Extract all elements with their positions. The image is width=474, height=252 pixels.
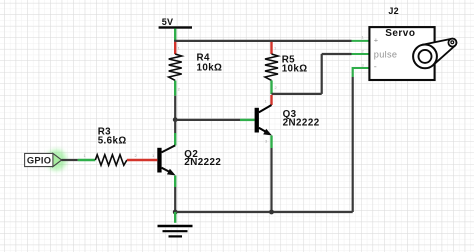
wire: 5V horizontal rail to servo + pin	[174, 40, 369, 42]
wire: R4 bottom to node A	[174, 96, 176, 120]
wire: pulse riser vertical	[321, 54, 323, 94]
transistor Q3	[255, 105, 320, 135]
svg-text:2N2222: 2N2222	[184, 157, 221, 168]
node A junction dot	[173, 117, 178, 122]
wire: to servo pulse pin	[322, 53, 370, 55]
wire: Q2 emitter lead (green)	[174, 176, 176, 188]
resistor R3	[95, 126, 127, 165]
pin number 1 of R3	[84, 153, 87, 158]
svg-text:10kΩ: 10kΩ	[197, 63, 223, 74]
wire: servo minus pin to ground rail	[353, 67, 370, 212]
resistor R4	[169, 53, 223, 81]
power symbol 5V	[159, 17, 192, 28]
pin number 1 of R5	[274, 46, 277, 51]
wire: R5 pin1 lead (red)	[270, 42, 272, 54]
connector J2 servo	[369, 6, 456, 80]
svg-text:2N2222: 2N2222	[283, 118, 320, 129]
wire: GPIO to R3	[62, 159, 96, 161]
wire: R5 pin2 lead (green)	[270, 80, 272, 94]
transistor Q2	[157, 145, 221, 175]
pin number 2 of R4	[178, 87, 181, 92]
junction dot Q3 emitter / ground rail	[269, 210, 274, 215]
pin number 1 of Q2 base	[152, 153, 155, 158]
svg-text:+: +	[374, 35, 379, 44]
wire: Q2 emitter to ground node	[174, 187, 176, 212]
svg-text:J2: J2	[388, 6, 398, 16]
svg-text:5V: 5V	[162, 17, 173, 27]
ground node junction dot	[173, 210, 178, 215]
pin number 2 of R3	[135, 153, 138, 158]
svg-text:-: -	[374, 61, 377, 71]
wire: ground node to ground symbol (green)	[174, 212, 176, 223]
pin numbers of connector J2	[362, 35, 365, 68]
node B: R5 bottom / pulse wire T	[272, 93, 322, 95]
wire: 5V bar to rail junction (green)	[174, 29, 176, 42]
ground	[158, 226, 193, 236]
pin number 3 of Q3	[265, 139, 268, 144]
svg-text:Servo: Servo	[385, 28, 415, 39]
net label GPIO	[25, 150, 67, 171]
wire: R4 pin2 lead (green)	[174, 81, 176, 96]
svg-text:5.6kΩ: 5.6kΩ	[98, 136, 127, 147]
svg-text:10kΩ: 10kΩ	[282, 64, 308, 75]
servo horn icon	[423, 39, 457, 66]
wire: Q3 emitter to ground rail	[270, 148, 272, 212]
wire: node A to Q3 base	[175, 119, 254, 121]
wire: Q3 collector lead (red)	[270, 95, 272, 105]
wire: R3 pin2 lead to Q2 base (red)	[127, 159, 157, 161]
pin number 1 of R4	[178, 46, 181, 51]
wire: node A to Q2 collector	[174, 120, 176, 146]
svg-text:GPIO: GPIO	[27, 156, 51, 166]
pin number 2 of R5	[275, 85, 278, 90]
resistor R5	[265, 54, 308, 80]
wire: ground rail horizontal	[175, 211, 353, 213]
wire: Q3 emitter lead (green)	[270, 136, 272, 149]
pin number 1 of Q3	[265, 99, 268, 104]
wire: R4 pin1 lead (red)	[174, 42, 176, 54]
svg-text:pulse: pulse	[374, 50, 397, 60]
